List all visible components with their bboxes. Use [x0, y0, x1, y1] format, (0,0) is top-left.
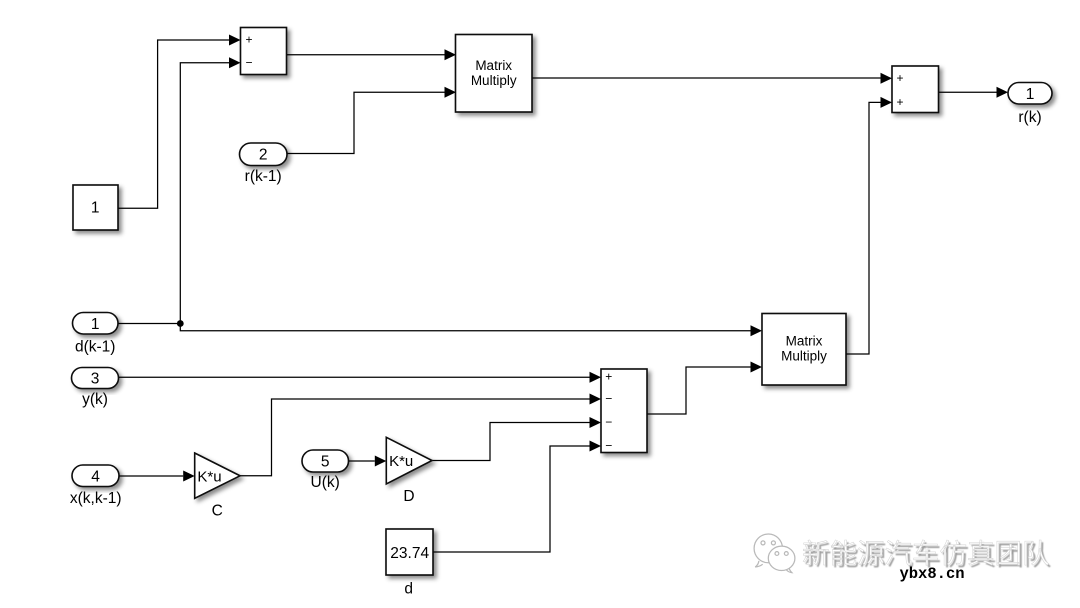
arrowhead Sum1 in1 — [229, 35, 241, 46]
svg-text:r(k-1): r(k-1) — [245, 168, 282, 185]
svg-text:d(k-1): d(k-1) — [75, 339, 115, 356]
product block MatrixMultiply1 — [456, 35, 533, 113]
svg-text:23.74: 23.74 — [390, 545, 429, 562]
svg-text:y(k): y(k) — [82, 391, 108, 408]
svg-text:1: 1 — [91, 199, 100, 216]
arrowhead Sum2 in3 — [590, 417, 602, 428]
watermark WeChat icon — [754, 534, 795, 573]
svg-text:+: + — [896, 95, 903, 109]
wire Sum3 out to Out1 r(k) — [939, 91, 997, 93]
wire d(k-1) to MatrixMultiply2 in1 — [180, 324, 750, 331]
input port 3 y(k) — [72, 368, 119, 389]
output port 1 r(k) — [1008, 83, 1052, 105]
svg-text:r(k): r(k) — [1018, 109, 1041, 126]
svg-text:U(k): U(k) — [311, 474, 340, 491]
sum block Sum2 (+ - - -) — [601, 369, 647, 453]
gain block D (K*u triangle) — [386, 437, 432, 484]
wire d(k-1) branch up to Sum1 in2 — [180, 63, 229, 324]
svg-text:1: 1 — [1026, 86, 1035, 103]
wire MatrixMultiply1 out to Sum3 in1 — [532, 77, 881, 79]
wire In4 x(k,k-1) to Gain C — [119, 475, 183, 477]
watermark text 新能源汽车仿真团队 — [805, 542, 1050, 567]
svg-text:Matrix: Matrix — [786, 334, 823, 349]
junction dot on d(k-1) net — [177, 320, 184, 327]
svg-text:Multiply: Multiply — [781, 348, 827, 363]
svg-text:D: D — [403, 488, 414, 505]
wire In3 y(k) to Sum2 in1 — [119, 376, 590, 378]
wire Sum1 out to MatrixMultiply1 in1 — [287, 54, 445, 56]
svg-text:+: + — [896, 71, 903, 85]
svg-text:C: C — [212, 503, 223, 520]
arrowhead Gain C input — [183, 471, 195, 482]
svg-text:K*u: K*u — [197, 469, 221, 486]
svg-text:−: − — [605, 415, 612, 429]
svg-text:1: 1 — [91, 316, 100, 333]
sum block Sum3 (+ +) — [892, 66, 939, 113]
svg-text:Multiply: Multiply — [471, 73, 517, 88]
svg-text:−: − — [605, 439, 612, 453]
svg-text:Matrix: Matrix — [475, 58, 512, 73]
product block MatrixMultiply2 — [762, 314, 846, 386]
svg-text:d: d — [404, 580, 413, 597]
arrowhead Sum1 in2 — [229, 57, 241, 68]
input port 1 d(k-1) — [73, 313, 119, 335]
input port 4 x(k,k-1) — [72, 465, 119, 487]
arrowhead Sum2 in4 — [590, 441, 602, 452]
svg-text:+: + — [605, 370, 612, 384]
arrowhead MatrixMultiply1 in2 — [445, 87, 457, 98]
svg-text:−: − — [245, 55, 252, 69]
wire Sum2 out to MatrixMultiply2 in2 — [647, 367, 751, 414]
wire Gain D out to Sum2 in3 — [432, 423, 590, 461]
svg-text:4: 4 — [91, 468, 100, 485]
svg-text:+: + — [245, 33, 252, 47]
svg-text:5: 5 — [321, 454, 330, 471]
wire from Constant1 to Sum1 in1 — [118, 40, 230, 208]
sum block Sum1 (+ -) — [241, 28, 287, 75]
wire Gain C out to Sum2 in2 — [240, 399, 590, 476]
arrowhead Sum2 in1 — [590, 372, 602, 383]
svg-text:2: 2 — [259, 147, 268, 164]
arrowhead Gain D input — [375, 456, 387, 467]
arrowhead MatrixMultiply2 in1 — [751, 325, 763, 336]
svg-text:K*u: K*u — [389, 453, 413, 470]
arrowhead MatrixMultiply1 in1 — [445, 49, 457, 60]
wire In1 d(k-1) to junction — [118, 323, 180, 325]
constant block value 1 — [73, 185, 118, 230]
svg-text:x(k,k-1): x(k,k-1) — [70, 490, 122, 507]
wire In5 U(k) to Gain D — [349, 460, 375, 462]
arrowhead MatrixMultiply2 in2 — [751, 362, 763, 373]
arrowhead Sum3 in2 — [881, 97, 893, 108]
arrowhead Sum3 in1 — [881, 73, 893, 84]
gain block C (K*u triangle) — [195, 453, 240, 498]
constant block d value 23.74 — [386, 529, 433, 575]
wire MatrixMultiply2 out to Sum3 in2 — [846, 102, 881, 354]
svg-text:−: − — [605, 392, 612, 406]
wire In2 r(k-1) to MatrixMultiply1 in2 — [287, 92, 445, 153]
input port 2 r(k-1) — [240, 143, 288, 166]
input port 5 U(k) — [302, 450, 349, 472]
wire Constant d out to Sum2 in4 — [433, 446, 590, 552]
svg-text:ybx8.cn: ybx8.cn — [899, 565, 964, 583]
arrowhead Sum2 in2 — [590, 394, 602, 405]
svg-text:3: 3 — [91, 371, 100, 388]
arrowhead Out1 r(k) — [997, 87, 1009, 98]
